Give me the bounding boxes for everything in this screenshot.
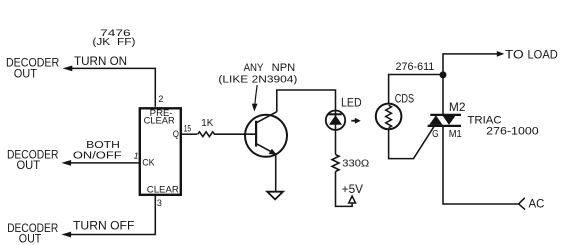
- svg-text:1K: 1K: [201, 118, 213, 129]
- callout arrow from label to transistor: [252, 85, 258, 112]
- svg-text:FF): FF): [117, 37, 136, 48]
- svg-text:OUT: OUT: [19, 232, 42, 245]
- AC terminal arrowhead: [519, 198, 526, 210]
- svg-text:2: 2: [158, 94, 163, 104]
- wire triac M1 down to AC: [443, 126, 519, 204]
- svg-text:TURN OFF: TURN OFF: [73, 218, 134, 232]
- wire collector up and to LED: [277, 90, 336, 112]
- wire junction up to TO LOAD: [443, 51, 504, 75]
- wire CDS bottom to gate G: [389, 127, 434, 159]
- svg-text:OUT: OUT: [17, 158, 41, 172]
- svg-text:3: 3: [157, 198, 162, 208]
- svg-text:OUT: OUT: [14, 66, 38, 80]
- node DECODER OUT (turn on): [6, 55, 59, 80]
- pin label PRE-CLEAR: [144, 108, 175, 126]
- svg-text:CK: CK: [142, 158, 155, 169]
- wire resistor to +5V: [336, 172, 353, 207]
- photocell CDS 276-611: [376, 104, 402, 130]
- svg-text:NPN: NPN: [272, 62, 296, 74]
- svg-text:M2: M2: [449, 102, 466, 114]
- svg-text:276-1000: 276-1000: [486, 126, 539, 138]
- ground: [267, 192, 283, 200]
- resistor R1 1K: [198, 118, 215, 136]
- svg-text:ON/OFF: ON/OFF: [73, 150, 122, 162]
- svg-text:(JK: (JK: [92, 37, 110, 48]
- IC U1 7476 JK flip-flop body: [140, 108, 181, 195]
- LED light arrow: [351, 118, 360, 124]
- svg-text:330Ω: 330Ω: [342, 157, 369, 169]
- node DECODER OUT (turn off): [7, 221, 58, 245]
- LED D1: [326, 111, 345, 155]
- wire junction down to triac M2: [442, 75, 444, 115]
- label BOTH ON/OFF: [73, 139, 122, 162]
- wire Q to resistor: [182, 133, 198, 135]
- svg-text:AC: AC: [529, 198, 545, 210]
- wire CK to both-on/off output: [61, 160, 139, 166]
- wire resistor to base: [214, 133, 256, 135]
- svg-text:CDS: CDS: [395, 94, 415, 106]
- junction dot: [440, 71, 447, 78]
- triac 276-1000: [428, 115, 461, 126]
- label TRIAC 276-1000: [467, 114, 538, 137]
- svg-text:276-611: 276-611: [396, 61, 435, 73]
- wire CLEAR pin3 to turn-off output: [61, 196, 155, 238]
- svg-text:ANY: ANY: [244, 62, 264, 74]
- wire turn-on output to pin 2: [63, 66, 156, 107]
- svg-text:+5V: +5V: [342, 184, 364, 196]
- label ANY NPN (LIKE 2N3904): [218, 62, 297, 85]
- resistor R2 330ohm: [332, 155, 369, 172]
- svg-text:(LIKE 2N3904): (LIKE 2N3904): [218, 73, 297, 85]
- svg-text:G: G: [432, 128, 439, 140]
- +5V supply: [342, 184, 364, 203]
- svg-text:Q: Q: [173, 129, 179, 139]
- svg-text:15: 15: [184, 123, 192, 133]
- label 7476 (JK FF): [92, 28, 135, 48]
- svg-text:CLEAR: CLEAR: [147, 185, 179, 196]
- transistor Q1 (NPN): [245, 112, 287, 157]
- svg-text:CLEAR: CLEAR: [144, 116, 175, 127]
- svg-text:LED: LED: [341, 97, 362, 109]
- node DECODER OUT (both on/off): [7, 148, 59, 173]
- wire emitter down: [275, 154, 277, 192]
- svg-text:LOAD: LOAD: [528, 48, 559, 62]
- svg-text:M1: M1: [449, 128, 462, 140]
- svg-text:TO: TO: [505, 48, 524, 62]
- wire CDS top to junction: [389, 75, 443, 104]
- svg-text:TURN ON: TURN ON: [74, 54, 127, 68]
